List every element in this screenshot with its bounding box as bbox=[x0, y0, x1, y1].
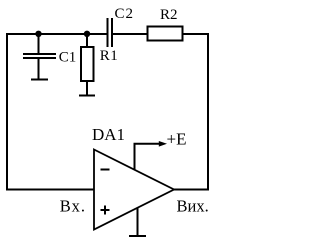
svg-text:R1: R1 bbox=[100, 48, 119, 64]
wire: right vertical (feedback to output) bbox=[207, 33, 209, 191]
svg-text:C2: C2 bbox=[115, 6, 135, 22]
svg-text:R2: R2 bbox=[160, 7, 178, 23]
power stub +E with arrow bbox=[135, 144, 161, 170]
svg-text:DA1: DA1 bbox=[92, 125, 125, 144]
svg-text:+E: +E bbox=[167, 130, 187, 149]
capacitor C2 bbox=[108, 18, 113, 47]
ground bar under C1 bbox=[31, 79, 48, 81]
wire: R2 to top-right corner bbox=[183, 33, 210, 35]
svg-text:C1: C1 bbox=[59, 50, 77, 66]
wire: left vertical (input node to top rail) bbox=[6, 33, 8, 191]
arrowhead of +E bbox=[159, 141, 167, 147]
wire: top rail from left corner to C2 left plate bbox=[6, 33, 108, 35]
wire: input horizontal to op-amp bbox=[6, 189, 94, 191]
resistor R1 bbox=[81, 34, 94, 95]
ground bar under R1 bbox=[79, 95, 95, 97]
junction node B (R1 tap) bbox=[84, 31, 90, 37]
junction node A (C1 tap) bbox=[35, 31, 41, 37]
plus input mark bbox=[101, 206, 110, 215]
minus input mark bbox=[101, 169, 110, 171]
wire: C2 to R2 bbox=[112, 33, 148, 35]
svg-text:Вх.: Вх. bbox=[60, 197, 86, 216]
svg-text:Вих.: Вих. bbox=[177, 197, 209, 216]
resistor R2 bbox=[148, 27, 183, 41]
wire: output horizontal from op-amp apex bbox=[174, 189, 209, 191]
op-amp U DA1 triangle bbox=[94, 150, 174, 230]
capacitor C1 bbox=[23, 34, 56, 79]
ground stub at op-amp non-inverting input bbox=[129, 208, 146, 236]
